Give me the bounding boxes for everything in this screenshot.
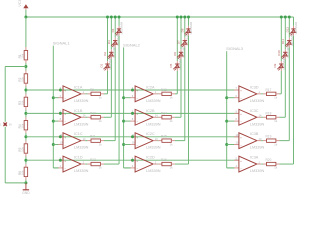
svg-text:1k: 1k — [99, 95, 103, 99]
svg-text:R12: R12 — [90, 158, 96, 162]
LED D12 — [285, 21, 298, 35]
node VCC rail junction at divider — [24, 16, 27, 19]
svg-text:D4: D4 — [111, 28, 115, 32]
node rail tap LED D11 — [288, 16, 291, 19]
wire input column to divider bottom — [5, 182, 26, 184]
wire IC1A output — [81, 93, 87, 95]
wire tap A to input column — [5, 66, 26, 68]
svg-text:R9: R9 — [90, 88, 94, 92]
svg-text:LM339N: LM339N — [74, 99, 89, 103]
wire LED column 3-2 lower — [284, 59, 286, 117]
wire LED column 3-1 lower — [280, 71, 282, 94]
wire LED column 1-3 lower — [114, 48, 116, 141]
svg-text:1k: 1k — [274, 166, 278, 170]
wire LED column 2-3 lower — [184, 48, 186, 141]
node rail tap LED D3 — [114, 16, 117, 19]
node IC2A +input joint — [131, 89, 134, 92]
svg-text:−: − — [64, 96, 66, 100]
svg-text:R15: R15 — [161, 135, 167, 139]
svg-text:VCC: VCC — [17, 0, 22, 7]
wire IC1B output — [81, 116, 87, 118]
wire IC3D output — [257, 93, 263, 95]
svg-text:LM339N: LM339N — [250, 122, 265, 126]
resistor R12 value 1k — [87, 158, 104, 170]
svg-text:R17: R17 — [266, 88, 272, 92]
resistor R5 value 10k — [18, 140, 27, 156]
svg-text:1k: 1k — [274, 95, 278, 99]
LED D3 — [107, 33, 120, 47]
svg-text:1k: 1k — [274, 119, 278, 123]
wire R14 to LED column — [175, 116, 181, 118]
svg-text:LED3MM: LED3MM — [294, 21, 298, 34]
node IC2C +input joint — [131, 135, 134, 138]
svg-text:1k: 1k — [99, 119, 103, 123]
wire divider segment above R4 — [25, 110, 27, 118]
wire LED column 2-4 upper — [188, 17, 190, 26]
svg-text:D8: D8 — [180, 28, 184, 32]
wire LED column 1-2 lower — [110, 59, 112, 117]
op-amp IC3A LM339N — [227, 156, 265, 174]
node rail tap LED D6 — [180, 16, 183, 19]
svg-text:1: 1 — [0, 123, 2, 127]
wire divider bottom segment — [25, 180, 27, 183]
node SIGNAL1 tee row 3 — [52, 143, 55, 146]
svg-text:D12: D12 — [285, 27, 289, 33]
wire LED column 2-3 upper — [184, 17, 186, 38]
wire R20 to LED column — [280, 163, 294, 165]
svg-text:+: + — [136, 112, 138, 116]
wire LED column 2-2 upper — [180, 17, 182, 49]
svg-text:1k: 1k — [99, 142, 103, 146]
svg-text:10k: 10k — [21, 53, 25, 58]
node rail tap LED D10 — [284, 16, 287, 19]
svg-text:1k: 1k — [170, 166, 174, 170]
svg-text:R11: R11 — [90, 135, 96, 139]
LED D9 — [273, 56, 286, 70]
LED D4 — [111, 21, 124, 35]
wire reference row 3 — [26, 136, 239, 138]
node SIGNAL2 tee row 3 — [122, 143, 125, 146]
svg-text:R10: R10 — [90, 111, 96, 115]
wire LED column 3-3 lower — [288, 48, 290, 141]
resistor R13 value 1k — [158, 88, 175, 100]
wire IC1D output — [81, 163, 87, 165]
svg-text:−: − — [137, 166, 139, 170]
node rail tap LED D1 — [106, 16, 109, 19]
node divider tap 4 — [24, 159, 27, 162]
LED D6 — [173, 45, 186, 59]
resistor R15 value 1k — [158, 135, 175, 147]
connector X1 input pin — [0, 123, 12, 127]
op-amp IC2D LM339N — [124, 156, 161, 174]
wire LED column 3-3 upper — [288, 17, 290, 38]
svg-text:LM339N: LM339N — [250, 146, 265, 150]
svg-text:LM339N: LM339N — [250, 169, 265, 173]
op-amp IC1A LM339N — [53, 85, 88, 103]
svg-text:1k: 1k — [170, 119, 174, 123]
wire IC1C output — [81, 140, 87, 142]
svg-text:−: − — [240, 120, 242, 124]
node SIGNAL1 tee row 2 — [52, 120, 55, 123]
resistor R11 value 1k — [87, 135, 104, 147]
wire IC2D output — [153, 163, 158, 165]
wire SIGNAL2 vertical — [123, 47, 125, 167]
svg-text:6: 6 — [132, 94, 134, 98]
svg-text:SIGNAL1: SIGNAL1 — [53, 41, 71, 46]
wire R15 to LED column — [175, 140, 185, 142]
wire IC2C output — [153, 140, 158, 142]
svg-text:IC1D: IC1D — [74, 156, 83, 160]
svg-text:+: + — [240, 112, 242, 116]
wire reference row 2 — [26, 112, 239, 114]
svg-text:D10: D10 — [277, 50, 281, 56]
svg-text:6: 6 — [236, 94, 238, 98]
resistor R20 value 1k — [263, 158, 280, 170]
svg-text:R14: R14 — [161, 111, 167, 115]
LED D10 — [277, 45, 290, 59]
svg-text:IC2B: IC2B — [146, 109, 155, 113]
svg-text:IN: IN — [9, 123, 12, 127]
svg-text:LM339N: LM339N — [146, 122, 161, 126]
node divider tap 1 — [24, 89, 27, 92]
svg-text:LED3MM: LED3MM — [189, 21, 193, 34]
wire LED column 1-3 upper — [114, 17, 116, 38]
svg-text:R20: R20 — [266, 158, 272, 162]
op-amp IC3B LM339N — [227, 132, 265, 150]
wire LED column 1-1 upper — [107, 17, 109, 61]
wire divider segment above R5 — [25, 133, 27, 141]
node divider tap 2 — [24, 112, 27, 115]
svg-text:−: − — [137, 120, 139, 124]
svg-text:IC2D: IC2D — [146, 156, 155, 160]
wire divider segment above R2 — [25, 63, 27, 71]
svg-text:−: − — [64, 143, 66, 147]
svg-text:R19: R19 — [266, 135, 272, 139]
wire SIGNAL1 to comparator D -input — [53, 167, 58, 169]
svg-text:8: 8 — [132, 117, 134, 121]
wire R10 to LED column — [104, 116, 111, 118]
node IC1C +input joint — [59, 135, 62, 138]
wire LED column 1-2 upper — [110, 17, 112, 49]
node rail tap LED D5 — [176, 16, 179, 19]
resistor R1 value 10k — [18, 47, 27, 63]
svg-text:−: − — [137, 96, 139, 100]
op-amp IC3D LM339N — [227, 85, 265, 103]
svg-text:R18: R18 — [266, 111, 272, 115]
svg-text:4: 4 — [60, 164, 62, 168]
svg-text:IC3C: IC3C — [250, 109, 259, 113]
node rail tap LED D9 — [280, 16, 283, 19]
wire LED column 2-2 lower — [180, 59, 182, 117]
svg-text:IC1C: IC1C — [74, 132, 83, 136]
LED D5 — [169, 56, 182, 70]
node IC1D +input joint — [59, 159, 62, 162]
svg-text:+: + — [64, 89, 66, 93]
wire VCC to rail — [25, 10, 27, 17]
resistor R14 value 1k — [158, 111, 175, 123]
svg-text:D9: D9 — [273, 63, 277, 67]
node SIGNAL2 tee row 2 — [122, 120, 125, 123]
wire LED column 2-1 lower — [176, 71, 178, 94]
svg-text:D7: D7 — [177, 40, 181, 44]
svg-text:+: + — [240, 89, 242, 93]
svg-text:+: + — [136, 159, 138, 163]
wire SIGNAL3 to comparator D -input — [227, 167, 235, 169]
wire SIGNAL2 to comparator D -input — [124, 167, 131, 169]
svg-text:8: 8 — [236, 117, 238, 121]
svg-text:−: − — [137, 143, 139, 147]
svg-text:IC1A: IC1A — [74, 85, 83, 89]
svg-text:IC2C: IC2C — [146, 132, 155, 136]
wire LED column 2-1 upper — [176, 17, 178, 61]
svg-text:−: − — [240, 143, 242, 147]
resistor R6 value 10k — [18, 164, 27, 180]
node SIGNAL2 tee row 1 — [122, 96, 125, 99]
wire LED column 3-4 lower — [293, 36, 295, 164]
svg-text:10k: 10k — [21, 77, 25, 82]
svg-text:4: 4 — [236, 164, 238, 168]
power symbol VCC — [17, 0, 28, 10]
svg-text:1k: 1k — [99, 166, 103, 170]
svg-text:10k: 10k — [21, 147, 25, 152]
wire IC2A output — [153, 93, 158, 95]
op-amp IC1B LM339N — [53, 109, 88, 127]
wire LED column 2-4 lower — [188, 36, 190, 164]
wire R17 to LED column — [280, 93, 282, 95]
svg-text:D3: D3 — [107, 40, 111, 44]
svg-text:IC1B: IC1B — [74, 109, 83, 113]
resistor R16 value 1k — [158, 158, 175, 170]
svg-text:D1: D1 — [99, 63, 103, 67]
LED D11 — [281, 33, 294, 47]
svg-text:LM339N: LM339N — [146, 169, 161, 173]
wire divider segment above R6 — [25, 156, 27, 164]
svg-text:R13: R13 — [161, 88, 167, 92]
wire LED column 3-4 upper — [293, 17, 295, 26]
wire reference row 1 — [26, 89, 239, 91]
wire LED column 3-1 upper — [280, 17, 282, 61]
wire LED column 1-4 upper — [118, 17, 120, 26]
op-amp IC3C LM339N — [227, 109, 265, 127]
resistor R18 value 1k — [263, 111, 280, 123]
op-amp IC1D LM339N — [53, 156, 88, 174]
wire LED column 3-2 upper — [284, 17, 286, 49]
wire R12 to LED column — [104, 163, 119, 165]
svg-text:D2: D2 — [103, 52, 107, 56]
svg-text:D5: D5 — [169, 63, 173, 67]
svg-text:LM339N: LM339N — [74, 122, 89, 126]
svg-text:IC3B: IC3B — [250, 132, 259, 136]
svg-text:8: 8 — [60, 117, 62, 121]
wire input column lower — [4, 127, 6, 183]
node SIGNAL3 tee row 1 — [225, 96, 228, 99]
resistor R19 value 1k — [263, 135, 280, 147]
svg-text:SIGNAL2: SIGNAL2 — [123, 42, 141, 47]
resistor R4 value 10k — [18, 117, 27, 133]
op-amp IC1C LM339N — [53, 132, 88, 150]
op-amp IC2A LM339N — [124, 85, 161, 103]
svg-text:−: − — [64, 166, 66, 170]
wire IC3A output — [257, 163, 263, 165]
svg-text:LM339N: LM339N — [74, 146, 89, 150]
LED D7 — [177, 33, 190, 47]
node IC2D +input joint — [131, 159, 134, 162]
wire LED column 1-1 lower — [107, 71, 109, 94]
wire R18 to LED column — [280, 116, 286, 118]
wire IC3B output — [257, 140, 263, 142]
svg-text:IC3A: IC3A — [250, 156, 259, 160]
resistor R3 value 10k — [18, 94, 27, 110]
wire reference row 4 — [26, 159, 239, 161]
wire R13 to LED column — [175, 93, 177, 95]
svg-text:IC2A: IC2A — [146, 85, 155, 89]
op-amp IC2B LM339N — [124, 109, 161, 127]
svg-text:R16: R16 — [161, 158, 167, 162]
svg-text:−: − — [240, 166, 242, 170]
wire IC2B output — [153, 116, 158, 118]
node divider bottom junction — [24, 181, 27, 184]
node divider tap 3 — [24, 135, 27, 138]
resistor R17 value 1k — [263, 88, 280, 100]
node rail tap LED D2 — [110, 16, 113, 19]
svg-text:+: + — [64, 135, 66, 139]
wire R9 to LED column — [104, 93, 108, 95]
svg-text:−: − — [64, 120, 66, 124]
resistor R10 value 1k — [87, 111, 104, 123]
svg-text:1k: 1k — [274, 142, 278, 146]
svg-text:1k: 1k — [170, 142, 174, 146]
wire SIGNAL3 vertical — [226, 51, 228, 168]
svg-text:1k: 1k — [170, 95, 174, 99]
svg-text:10k: 10k — [21, 123, 25, 128]
wire SIGNAL1 vertical — [52, 46, 54, 168]
svg-text:D6: D6 — [173, 52, 177, 56]
svg-text:LM339N: LM339N — [74, 169, 89, 173]
wire top VCC rail — [26, 16, 294, 18]
svg-text:IC3D: IC3D — [250, 85, 259, 89]
svg-text:SIGNAL3: SIGNAL3 — [226, 46, 244, 51]
node SIGNAL3 tee row 2 — [225, 120, 228, 123]
svg-text:4: 4 — [132, 164, 134, 168]
node SIGNAL1 tee row 1 — [52, 96, 55, 99]
resistor R2 value 10k — [18, 70, 27, 86]
wire divider segment above R3 — [25, 86, 27, 94]
ground GND — [22, 183, 30, 195]
svg-text:GND: GND — [22, 191, 30, 195]
node rail tap LED D8 — [187, 16, 190, 19]
wire divider segment above R1 — [25, 17, 27, 47]
svg-text:−: − — [240, 96, 242, 100]
node rail tap LED D7 — [183, 16, 186, 19]
wire R19 to LED column — [280, 140, 290, 142]
svg-text:LM339N: LM339N — [146, 146, 161, 150]
node rail tap LED D4 — [118, 16, 121, 19]
wire input column upper — [4, 67, 6, 122]
resistor R9 value 1k — [87, 88, 104, 100]
node divider tap A (to input) — [24, 65, 27, 68]
svg-text:LM339N: LM339N — [146, 99, 161, 103]
wire IC3C output — [257, 116, 263, 118]
LED D2 — [103, 45, 116, 59]
svg-text:+: + — [136, 89, 138, 93]
svg-text:10k: 10k — [21, 100, 25, 105]
node IC1B +input joint — [59, 112, 62, 115]
op-amp IC2C LM339N — [124, 132, 161, 150]
node IC2B +input joint — [131, 112, 134, 115]
node IC1A +input joint — [59, 89, 62, 92]
wire R11 to LED column — [104, 140, 115, 142]
svg-text:LED3MM: LED3MM — [120, 21, 124, 34]
svg-text:+: + — [240, 159, 242, 163]
svg-text:+: + — [240, 135, 242, 139]
svg-text:LM339N: LM339N — [250, 99, 265, 103]
wire LED column 1-4 lower — [118, 36, 120, 164]
svg-text:+: + — [64, 112, 66, 116]
svg-text:6: 6 — [60, 94, 62, 98]
svg-text:D11: D11 — [281, 38, 285, 44]
LED D8 — [180, 21, 193, 35]
svg-text:+: + — [136, 135, 138, 139]
LED D1 — [99, 56, 112, 70]
wire R16 to LED column — [175, 163, 189, 165]
svg-text:10k: 10k — [21, 170, 25, 175]
node SIGNAL3 tee row 3 — [225, 143, 228, 146]
svg-text:+: + — [64, 159, 66, 163]
